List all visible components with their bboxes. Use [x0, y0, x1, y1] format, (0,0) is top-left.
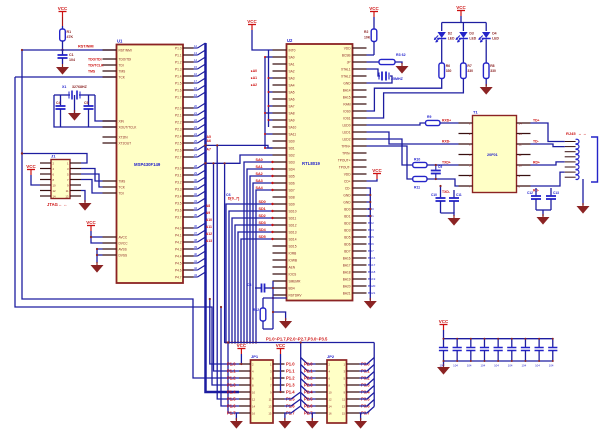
svg-text:JTAG: JTAG [47, 202, 58, 207]
wire VCC4 to U2 [252, 30, 273, 50]
svg-text:BD2: BD2 [344, 221, 350, 225]
svg-text:SD6: SD6 [289, 181, 295, 185]
svg-text:P2.2: P2.2 [175, 120, 182, 124]
wire U2 XTAL2 [367, 76, 393, 83]
capacitor C17 104 [480, 338, 489, 368]
svg-text:DVSS: DVSS [119, 253, 128, 257]
svg-text:25MHZ: 25MHZ [391, 77, 404, 81]
svg-text:P3.6: P3.6 [175, 208, 182, 212]
svg-text:R1: R1 [67, 30, 72, 34]
svg-text:11: 11 [342, 398, 345, 402]
svg-text:RJ45: RJ45 [566, 131, 576, 136]
ground JP2 right [354, 421, 367, 429]
wire VCC1 to R1 [62, 17, 64, 26]
svg-text:C1: C1 [69, 53, 74, 57]
ground R3 [396, 66, 409, 74]
svg-text:SD4: SD4 [289, 167, 295, 171]
svg-text:TCK: TCK [119, 185, 126, 189]
svg-text:P1.3: P1.3 [175, 67, 182, 71]
svg-text:SD0: SD0 [289, 139, 295, 143]
svg-text:BA19: BA19 [343, 277, 351, 281]
svg-text:P2.6: P2.6 [175, 148, 182, 152]
wire crystal loop right [95, 95, 117, 121]
wire U2 left rail 2 [264, 56, 273, 149]
svg-text:TD+: TD+ [533, 119, 540, 123]
svg-text:P4.5: P4.5 [175, 261, 182, 265]
svg-text:P2.0: P2.0 [304, 361, 313, 366]
svg-text:TMS: TMS [88, 70, 96, 74]
resistor R6 330 [439, 63, 452, 79]
svg-text:104: 104 [494, 364, 499, 368]
wire TPIN+ [367, 139, 413, 165]
svg-text:XT2IN: XT2IN [119, 135, 129, 139]
wire TPOUT+ [367, 123, 426, 125]
led D4 [478, 23, 499, 64]
capacitor C10 [431, 193, 446, 213]
capacitor C19 104 [507, 338, 516, 368]
svg-text:BD6: BD6 [344, 242, 350, 246]
wire caps join [441, 213, 455, 216]
wire T1 pin7 tap [440, 186, 442, 198]
RJ45 shield bracket [591, 137, 598, 182]
svg-text:BD4: BD4 [289, 286, 295, 290]
svg-text:BD5: BD5 [344, 235, 350, 239]
resistor R10 [413, 162, 427, 167]
svg-text:JP2: JP2 [327, 354, 335, 359]
svg-text:104: 104 [440, 364, 445, 368]
capacitor C5 [84, 95, 94, 127]
svg-text:P1.2: P1.2 [227, 375, 236, 380]
svg-text:P4.2: P4.2 [175, 240, 182, 244]
svg-text:P2.4: P2.4 [175, 134, 182, 138]
svg-text:37: 37 [194, 231, 198, 235]
svg-text:14: 14 [53, 195, 57, 199]
svg-text:BA15: BA15 [343, 95, 351, 99]
svg-text:P1.2: P1.2 [286, 375, 295, 380]
connector J1 JTAG body [51, 160, 70, 199]
svg-text:TXD-: TXD- [442, 190, 450, 194]
svg-text:BA19: BA19 [368, 277, 376, 281]
svg-text:P2.4: P2.4 [304, 389, 313, 394]
resistor R2 10K [364, 17, 377, 55]
wire to ground [273, 312, 286, 320]
svg-text:30: 30 [194, 178, 198, 182]
power VCC6 (U2 VDD) [372, 168, 382, 179]
power VCC9 (JP1 pin9) [276, 343, 286, 354]
svg-text:R3 62: R3 62 [396, 53, 406, 57]
wire R11 to T1 [427, 179, 459, 186]
svg-text:11: 11 [66, 189, 69, 193]
svg-text:RD+: RD+ [533, 161, 540, 165]
svg-text:13: 13 [342, 405, 346, 409]
svg-text:13: 13 [519, 132, 523, 136]
connector JP1 body [251, 360, 274, 423]
transformer T1 body [473, 116, 517, 193]
svg-text:SD5: SD5 [259, 235, 266, 239]
svg-text:BD7: BD7 [344, 249, 350, 253]
svg-text:29: 29 [194, 171, 198, 175]
svg-text:SMEMR: SMEMR [289, 279, 302, 283]
svg-text:34: 34 [194, 206, 198, 210]
svg-text:P1.4: P1.4 [286, 389, 295, 394]
wire VCC7 to J1 [31, 175, 40, 185]
wire LED0 net [367, 79, 442, 112]
JP2 right pins [342, 361, 370, 415]
svg-text:A12: A12 [206, 232, 212, 236]
svg-text:SD8: SD8 [289, 195, 295, 199]
svg-text:↔ ↔: ↔ ↔ [58, 202, 67, 207]
wire fan bus to JP2 left [301, 358, 316, 414]
svg-text:R12: R12 [253, 308, 259, 312]
wire TPIN- [367, 146, 413, 179]
svg-text:P4.7: P4.7 [175, 275, 182, 279]
ground LED [480, 87, 493, 95]
wire R10 to T1 [427, 164, 459, 166]
node C9 top [435, 164, 437, 166]
svg-text:CD+: CD+ [344, 179, 351, 183]
svg-text:SA2: SA2 [289, 69, 295, 73]
svg-text:33: 33 [194, 199, 198, 203]
wire bank top rail [443, 330, 445, 339]
svg-text:P1.0: P1.0 [286, 361, 295, 366]
capacitor C14 104 [439, 338, 448, 368]
svg-text:J1: J1 [51, 154, 56, 159]
wire AVSS/DVSS to ground [97, 249, 103, 263]
svg-text:32768HZ: 32768HZ [72, 85, 88, 89]
svg-text:104: 104 [467, 364, 472, 368]
svg-text:BA16: BA16 [368, 256, 376, 260]
svg-text:31: 31 [194, 185, 198, 189]
svg-text:SD2: SD2 [259, 214, 266, 218]
svg-text:C13: C13 [553, 191, 559, 195]
svg-text:R2: R2 [364, 30, 368, 34]
resistor R1 47K [60, 26, 74, 50]
svg-text:SA4: SA4 [289, 83, 295, 87]
wire net A (RST to JP1) [22, 50, 239, 378]
svg-text:BA21: BA21 [368, 291, 376, 295]
svg-text:P1.3: P1.3 [227, 382, 236, 387]
wire U1 to U2 IOW [206, 155, 273, 163]
svg-text:BD6: BD6 [368, 242, 374, 246]
wire bank to ground [443, 361, 445, 366]
svg-text:VCC: VCC [372, 168, 382, 173]
svg-text:TPOUT+: TPOUT+ [338, 158, 351, 162]
svg-text:VCC: VCC [58, 6, 68, 11]
svg-text:SA1: SA1 [256, 165, 263, 169]
wire U2 to R3 [367, 61, 380, 63]
svg-text:P1.6: P1.6 [175, 88, 182, 92]
resistor R11 [413, 176, 427, 181]
svg-text:TMS: TMS [119, 69, 126, 73]
svg-text:P3.5: P3.5 [175, 201, 182, 205]
svg-text:25: 25 [194, 139, 198, 143]
svg-text:IOCS: IOCS [289, 272, 297, 276]
svg-text:SA7: SA7 [289, 104, 295, 108]
svg-text:LED0: LED0 [343, 123, 351, 127]
svg-text:BD2: BD2 [368, 221, 374, 225]
svg-text:C4: C4 [56, 101, 60, 105]
svg-text:T1: T1 [473, 110, 478, 115]
wire JP1 right to bus [285, 392, 301, 413]
svg-text:A7: A7 [207, 148, 211, 152]
svg-text:SD11: SD11 [289, 216, 297, 220]
wire JP1 right ground [284, 413, 286, 420]
svg-text:10: 10 [519, 163, 523, 167]
svg-text:GND: GND [343, 81, 351, 85]
svg-text:SA6: SA6 [289, 97, 295, 101]
svg-text:P2.1: P2.1 [304, 368, 313, 373]
T1 right pins [517, 121, 531, 188]
wire LED top rail [442, 22, 487, 24]
U1 right pins with bus entries [175, 43, 206, 279]
bus U1 right [206, 43, 240, 392]
ground bypass bank [437, 367, 450, 375]
svg-text:12: 12 [194, 44, 198, 48]
svg-text:18: 18 [194, 86, 198, 90]
svg-text:VCC: VCC [86, 220, 96, 225]
svg-text:TPOUT-: TPOUT- [339, 165, 351, 169]
svg-text:XIN: XIN [119, 119, 125, 123]
svg-text:BD3: BD3 [368, 228, 374, 232]
wire join to ground [542, 210, 544, 216]
capacitor C13 [546, 188, 559, 210]
svg-text:RST/NMI: RST/NMI [119, 48, 132, 52]
svg-text:SA11: SA11 [289, 132, 297, 136]
svg-text:BA17: BA17 [368, 263, 376, 267]
svg-text:14: 14 [252, 405, 256, 409]
ground C12 C13 [537, 217, 550, 225]
svg-text:IORB: IORB [289, 251, 297, 255]
wire T1 RD+ to RJ45 [531, 162, 565, 165]
svg-text:27: 27 [194, 153, 198, 157]
wire R12 bottom [263, 328, 273, 330]
ground U1 supply [91, 265, 104, 273]
svg-text:VCC: VCC [26, 164, 36, 169]
svg-text:JP1: JP1 [251, 354, 259, 359]
svg-text:VDD: VDD [344, 172, 351, 176]
U2 right pins [338, 46, 376, 295]
node RST junction [61, 49, 63, 51]
svg-text:LED2: LED2 [343, 137, 351, 141]
svg-text:BD0: BD0 [344, 207, 350, 211]
svg-text:41: 41 [194, 259, 198, 263]
svg-text:TPIN-: TPIN- [342, 151, 350, 155]
svg-text:P1.5: P1.5 [227, 396, 236, 401]
wire J1 to ground [81, 191, 85, 203]
svg-text:330: 330 [446, 69, 452, 73]
svg-text:P1.5: P1.5 [175, 81, 182, 85]
svg-text:↔ ↔: ↔ ↔ [578, 132, 587, 136]
svg-text:CD-: CD- [345, 186, 351, 190]
svg-text:43: 43 [194, 273, 198, 277]
ground caps T1 [448, 218, 461, 226]
svg-text:SD15: SD15 [289, 244, 297, 248]
svg-text:XOUT/TCLK: XOUT/TCLK [119, 125, 138, 129]
svg-text:RAM: RAM [343, 102, 350, 106]
svg-text:P2.1: P2.1 [175, 113, 182, 117]
svg-text:P1.0~P1.7,P2.0~P2.7,P3.0~P3.5: P1.0~P1.7,P2.0~P2.7,P3.0~P3.5 [266, 337, 328, 342]
power VCC1 [58, 6, 68, 17]
wire bank bottom rail [444, 360, 553, 362]
svg-text:IOS1: IOS1 [343, 116, 350, 120]
labels U1 port nets lower [206, 204, 212, 243]
labels U1 port nets upper [207, 135, 211, 152]
ground reset RC [279, 321, 292, 329]
svg-text:15: 15 [194, 65, 198, 69]
svg-text:P4.1: P4.1 [175, 233, 182, 237]
wire U2 GND pins [367, 188, 371, 300]
svg-text:C12: C12 [527, 191, 533, 195]
svg-text:SA9: SA9 [289, 118, 295, 122]
svg-text:13: 13 [194, 51, 198, 55]
svg-text:14: 14 [194, 58, 198, 62]
svg-text:TDI/TCLK: TDI/TCLK [88, 64, 104, 68]
capacitor C8 [247, 283, 273, 293]
labels band2 nets [259, 200, 267, 239]
capacitor C21 104 [535, 338, 544, 368]
svg-text:SD12: SD12 [289, 223, 297, 227]
svg-text:P4.6: P4.6 [175, 268, 182, 272]
svg-text:BA20: BA20 [343, 284, 351, 288]
wire VCC8 stem [240, 354, 242, 364]
svg-text:C6: C6 [226, 193, 231, 197]
svg-text:104: 104 [480, 364, 485, 368]
svg-text:P3.7: P3.7 [175, 215, 182, 219]
svg-text:22: 22 [194, 118, 198, 122]
svg-text:SD3: SD3 [289, 160, 295, 164]
svg-text:SD3: SD3 [259, 221, 266, 225]
svg-text:BA20: BA20 [368, 284, 376, 288]
wire J1 to U1 TCK [81, 174, 103, 187]
svg-text:10: 10 [53, 184, 57, 188]
wire net B (TCK to JP1) [15, 77, 239, 385]
wire U2 left rail 1 [268, 50, 273, 127]
svg-text:TPIN+: TPIN+ [341, 144, 350, 148]
bus banner P1.0~P3.5 [225, 163, 375, 342]
resistor R9 [426, 120, 441, 125]
svg-text:12: 12 [329, 398, 333, 402]
svg-text:TDI: TDI [119, 191, 124, 195]
resistor R8 330 [483, 63, 496, 79]
connector J2 RJ45 pins [565, 139, 579, 179]
svg-text:P2.5: P2.5 [175, 141, 182, 145]
svg-text:P4.3: P4.3 [175, 247, 182, 251]
svg-text:P3.1: P3.1 [175, 173, 182, 177]
resistor R7 330 [461, 63, 474, 79]
svg-text:TXD+: TXD+ [442, 161, 451, 165]
svg-text:LED: LED [448, 37, 455, 41]
svg-text:10: 10 [252, 391, 256, 395]
svg-text:BA21: BA21 [343, 291, 351, 295]
svg-text:SD14: SD14 [289, 237, 297, 241]
op IC U2 RTL8019AS body [287, 44, 353, 301]
svg-text:TDO/TDI: TDO/TDI [88, 58, 102, 62]
JP1 right pins [268, 363, 284, 416]
svg-text:13: 13 [268, 405, 272, 409]
svg-text:P1.4: P1.4 [227, 389, 236, 394]
svg-text:SD7: SD7 [289, 188, 295, 192]
svg-text:C10: C10 [431, 193, 437, 197]
svg-text:14: 14 [329, 405, 333, 409]
svg-text:VCC: VCC [237, 343, 247, 348]
ground JTAG [79, 203, 92, 211]
svg-text:JP: JP [347, 60, 351, 64]
ground crystal mid [68, 95, 81, 121]
svg-text:P2.3: P2.3 [304, 382, 313, 387]
wire bus drop to JP2 [300, 343, 302, 407]
svg-text:TMS: TMS [119, 179, 126, 183]
svg-text:R7: R7 [467, 64, 471, 68]
svg-text:21: 21 [194, 111, 198, 115]
wire R9 to T1 [440, 122, 459, 124]
svg-text:A9: A9 [206, 211, 210, 215]
op IC U1 MSP430F149 body [117, 45, 184, 284]
svg-text:SA1: SA1 [289, 62, 295, 66]
svg-text:40: 40 [194, 252, 198, 256]
svg-text:14: 14 [519, 121, 523, 125]
wire JP2 left ground [312, 413, 315, 420]
svg-text:SA8: SA8 [289, 111, 295, 115]
ground RJ45 [577, 206, 590, 214]
svg-text:GND: GND [343, 200, 351, 204]
svg-text:P1.7: P1.7 [175, 95, 182, 99]
svg-text:C8: C8 [247, 283, 251, 287]
svg-text:RXD+: RXD+ [442, 119, 451, 123]
svg-text:P1.7: P1.7 [227, 410, 236, 415]
svg-text:23: 23 [194, 125, 198, 129]
wire T1 RD- to RJ45 [531, 172, 565, 186]
svg-text:P4.0: P4.0 [175, 226, 182, 230]
wire U2 address band1 to bus [243, 161, 274, 344]
capacitor C4 [56, 95, 66, 127]
svg-text:U1: U1 [117, 39, 123, 44]
svg-text:15: 15 [268, 412, 272, 416]
wire LED1 net [367, 79, 464, 119]
svg-text:11: 11 [519, 153, 522, 157]
capacitor C18 104 [494, 338, 503, 368]
wire VCC6 to U2 [367, 179, 378, 181]
JP1 left pins [227, 361, 256, 415]
svg-text:AVSS: AVSS [119, 247, 127, 251]
svg-text:XTAL2: XTAL2 [341, 74, 351, 78]
svg-text:D3: D3 [469, 32, 473, 36]
svg-text:10: 10 [329, 391, 333, 395]
svg-text:TD-: TD- [533, 140, 539, 144]
wire J1 to U1 TMS [81, 169, 103, 182]
svg-text:19: 19 [194, 93, 198, 97]
svg-text:D4: D4 [492, 32, 496, 36]
wire crystal loop left [54, 95, 117, 127]
svg-text:A13: A13 [206, 239, 212, 243]
svg-text:VCC: VCC [456, 5, 466, 10]
svg-text:SA3: SA3 [256, 179, 263, 183]
capacitor C15 104 [453, 338, 462, 368]
svg-text:SA4: SA4 [256, 186, 264, 190]
ground U2 [364, 301, 377, 309]
svg-text:330: 330 [467, 69, 473, 73]
svg-text:P2.7: P2.7 [175, 155, 182, 159]
svg-text:P4.4: P4.4 [175, 254, 182, 258]
svg-text:RTL8019: RTL8019 [302, 161, 321, 166]
svg-text:TCK: TCK [119, 75, 126, 79]
wire JP2 right to bus riser [360, 358, 375, 414]
capacitor C22 104 [548, 338, 557, 368]
wire TPOUT- [367, 132, 459, 144]
svg-text:SA5: SA5 [289, 90, 295, 94]
svg-text:VCC: VCC [276, 343, 286, 348]
svg-text:330: 330 [490, 69, 496, 73]
svg-text:R9: R9 [427, 115, 431, 119]
